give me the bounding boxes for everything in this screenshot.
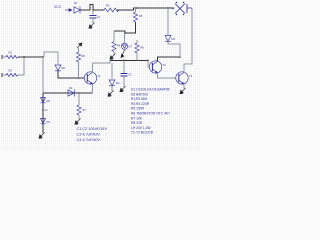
capacitor C1	[90, 16, 97, 19]
node R1R2	[23, 56, 25, 58]
wire top rail with jog	[80, 5, 93, 11]
svg-text:C4 4,7uF/40V: C4 4,7uF/40V	[77, 138, 101, 142]
lower-left rail	[42, 93, 44, 133]
svg-text:T1-T3 BC237B: T1-T3 BC237B	[131, 131, 154, 135]
svg-text:D4: D4	[47, 120, 51, 124]
transistor T2	[149, 61, 161, 74]
svg-text:R7 10K: R7 10K	[131, 116, 143, 120]
left vertical rail	[42, 57, 44, 93]
svg-text:R5: R5	[139, 14, 143, 18]
svg-text:LH 24V 1,2W: LH 24V 1,2W	[131, 126, 151, 130]
svg-text:D2: D2	[116, 81, 120, 85]
node with stub	[42, 109, 44, 111]
svg-text:R1,R2 6K8: R1,R2 6K8	[131, 97, 147, 101]
ground arrow under R4	[110, 54, 116, 60]
node base	[78, 77, 80, 79]
wire T2 emitter to T3 base	[157, 73, 175, 78]
VCC terminal arrow	[65, 9, 72, 12]
resistor R5	[133, 8, 142, 22]
wire branch down to C1	[92, 10, 94, 15]
emitter rail wire y93	[43, 92, 92, 94]
svg-text:C3 4,7uF/63V: C3 4,7uF/63V	[77, 133, 101, 137]
node cap branch	[123, 60, 125, 62]
parts list text block	[131, 88, 170, 135]
ground arrow lower-left	[39, 133, 45, 139]
resistor R1	[2, 51, 18, 60]
wire bus down to cap C3	[123, 60, 125, 73]
svg-text:R8: R8	[82, 54, 86, 58]
lamp LH	[172, 2, 192, 15]
diode D10 down	[109, 80, 115, 86]
diode D8 (down)	[55, 65, 61, 71]
svg-text:C1,C2 100uF/16V: C1,C2 100uF/16V	[77, 127, 108, 131]
node bus right	[147, 60, 149, 62]
ground arrow under C3	[120, 86, 126, 92]
node top-left	[92, 9, 94, 11]
svg-text:R4: R4	[117, 44, 121, 48]
svg-text:C3: C3	[128, 73, 132, 77]
svg-text:VCC: VCC	[54, 5, 62, 9]
ground arrow under C1	[89, 23, 95, 29]
diode D5 (down)	[165, 36, 171, 42]
diode D3 on rail	[68, 90, 74, 97]
ground arrow under T3	[180, 88, 186, 94]
svg-text:R6: R6	[141, 46, 145, 50]
thermistor R6 above bus	[135, 40, 144, 60]
diode D4 (down)	[41, 119, 46, 124]
capacitor C3	[121, 74, 128, 77]
wire R1 to junction	[18, 56, 44, 58]
wire R3 to lamp	[117, 8, 174, 10]
node at 125,32	[124, 32, 126, 34]
LED D7 circle	[121, 43, 127, 49]
resistor R3	[104, 8, 119, 12]
svg-text:D1 CS106,D4,D6 BA0P95: D1 CS106,D4,D6 BA0P95	[131, 88, 170, 92]
wire lamp branch down	[167, 8, 169, 35]
svg-text:R6 TERMISTOR NTC 4K7: R6 TERMISTOR NTC 4K7	[131, 112, 170, 116]
node R7 on rail	[78, 92, 80, 94]
svg-text:R8 22R: R8 22R	[131, 121, 143, 125]
resistor R8 vertical	[76, 48, 85, 78]
svg-text:C1: C1	[97, 15, 101, 19]
capacitor value text block	[77, 127, 108, 142]
wire bus to T2 base	[148, 60, 149, 67]
svg-text:D7: D7	[129, 45, 133, 49]
node at x43	[42, 56, 44, 58]
diode D1	[74, 7, 80, 14]
wire down to R4	[113, 31, 115, 42]
wire jog up to D8 branch	[44, 52, 58, 64]
svg-text:D1: D1	[74, 1, 78, 5]
diode D6 (down)	[41, 98, 46, 103]
svg-text:D5 BAP910: D5 BAP910	[131, 92, 148, 96]
svg-text:D3: D3	[69, 86, 73, 90]
wire C1 to ground	[92, 18, 94, 24]
svg-text:R5 150R: R5 150R	[131, 107, 145, 111]
wire R2 riser	[18, 57, 24, 75]
resistor R2	[2, 69, 18, 78]
wire to R3	[93, 9, 104, 11]
svg-text:R1: R1	[9, 51, 13, 55]
node R6	[136, 60, 138, 62]
svg-text:R3,R4 220R: R3,R4 220R	[131, 102, 150, 106]
resistor R7	[77, 93, 86, 119]
svg-text:R7: R7	[83, 108, 87, 112]
wire R4 to ground	[113, 52, 115, 55]
bus wire middle	[92, 60, 110, 63]
svg-text:R2: R2	[9, 69, 13, 73]
wire to ground	[111, 86, 113, 91]
node R5 top	[135, 7, 137, 9]
wire T2 collector rail	[157, 57, 180, 61]
wire T1 collector to bus	[91, 63, 93, 72]
svg-text:R3: R3	[106, 4, 110, 8]
transistor T1	[84, 72, 96, 85]
ground arrow under R7	[75, 119, 81, 125]
svg-text:D8: D8	[62, 66, 66, 70]
wire T3 collector from lamp	[184, 8, 192, 72]
wire down to LED D7	[124, 33, 126, 43]
wire R5 bottom to cross wire	[114, 22, 136, 33]
wire D8 to base rail	[58, 71, 84, 78]
ground arrow under D10	[108, 91, 114, 97]
arrow LED to bus	[121, 50, 125, 58]
wire T1 emitter down	[91, 84, 93, 93]
resistor R4	[112, 42, 116, 52]
svg-text:D6: D6	[47, 99, 51, 103]
wire C3 to ground	[123, 76, 125, 87]
wire T3 emitter down	[183, 84, 185, 88]
svg-text:D5: D5	[172, 37, 176, 41]
wire bus down to diode D10	[111, 63, 113, 79]
wire D5 to rail	[168, 42, 180, 58]
terminal arrow above R8	[77, 43, 82, 48]
node at 180,57	[179, 56, 181, 58]
node lamp branch	[167, 7, 169, 9]
transistor T3	[176, 72, 188, 85]
